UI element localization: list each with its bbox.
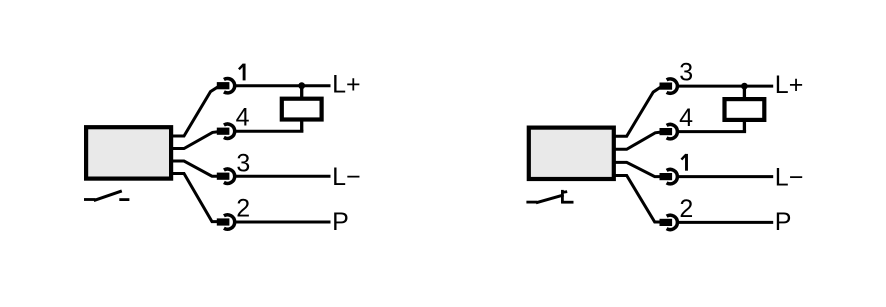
wire from device to pin 3 [614, 86, 662, 136]
wire from device to pin 1 [614, 162, 662, 176]
pin number 1 (stem) [685, 154, 688, 171]
temperature switch lever [536, 195, 564, 203]
svg-text:L+: L+ [775, 71, 804, 99]
switch contact right lead [119, 198, 129, 201]
wire pin 3 to L+ [677, 85, 774, 88]
pin number 1 (flag) [681, 155, 686, 160]
svg-text:3: 3 [236, 150, 250, 178]
wire from device to pin 3 [171, 161, 219, 176]
connector pin 2 contact [660, 219, 673, 226]
junction node on L+ line [741, 83, 748, 90]
wire pin 2 to P [677, 221, 774, 224]
connector pin 4 contact [217, 128, 230, 135]
connector pin 1 socket arc [667, 169, 678, 183]
svg-text:P: P [775, 208, 792, 236]
device body (sensor) [529, 128, 614, 179]
wire pin 1 to L- [677, 175, 774, 178]
svg-text:4: 4 [236, 104, 250, 132]
wire junction to load top [743, 86, 746, 99]
wire pin 3 to L- [234, 175, 331, 178]
load resistor box [725, 99, 765, 120]
connector pin 1 contact [660, 173, 673, 180]
connector pin 2 socket arc [224, 215, 235, 229]
connector pin 2 socket arc [667, 215, 678, 229]
svg-text:3: 3 [679, 58, 693, 86]
connector pin 3 socket arc [667, 79, 678, 93]
pin number 1 (stem) [243, 64, 246, 81]
svg-text:2: 2 [236, 195, 250, 223]
svg-text:P: P [332, 208, 349, 236]
connector pin 3 contact [217, 173, 230, 180]
pin number 1 (flag) [239, 64, 244, 69]
wire junction to load top [300, 86, 303, 99]
temperature switch t stem [561, 190, 564, 203]
svg-text:4: 4 [679, 104, 693, 132]
temperature switch t crossbar [562, 190, 567, 194]
wire from device to pin 4 [614, 132, 662, 149]
wire from device to pin 2 [171, 174, 219, 222]
svg-text:L−: L− [332, 163, 361, 191]
temperature switch right lead [561, 201, 573, 204]
svg-text:L−: L− [775, 163, 804, 191]
wire load bottom to pin 4 line [300, 119, 303, 131]
wire from device to pin 2 [614, 176, 662, 223]
svg-text:2: 2 [679, 195, 693, 223]
temperature switch left lead [526, 201, 537, 204]
wire pin 4 to load [234, 130, 303, 133]
svg-text:L+: L+ [332, 70, 361, 98]
wire load bottom to pin 4 line [743, 120, 746, 132]
device body (sensor) [86, 127, 171, 178]
connector pin 1 contact [217, 82, 230, 89]
connector pin 2 contact [217, 218, 230, 225]
wire pin 2 to P [234, 221, 331, 224]
load resistor box [282, 99, 322, 120]
wire from device to pin 4 [171, 132, 219, 149]
switch contact left lead [84, 198, 96, 201]
connector pin 4 socket arc [224, 124, 235, 138]
connector pin 4 socket arc [667, 124, 678, 138]
wire pin 4 to load [677, 130, 746, 133]
junction node on L+ line [298, 82, 305, 89]
switch contact lever [94, 191, 122, 201]
connector pin 4 contact [660, 128, 673, 135]
connector pin 1 socket arc [224, 79, 235, 93]
wire pin 1 to L+ [234, 84, 331, 87]
connector pin 3 contact [660, 83, 673, 90]
wire from device to pin 1 [171, 86, 219, 136]
connector pin 3 socket arc [224, 169, 235, 183]
